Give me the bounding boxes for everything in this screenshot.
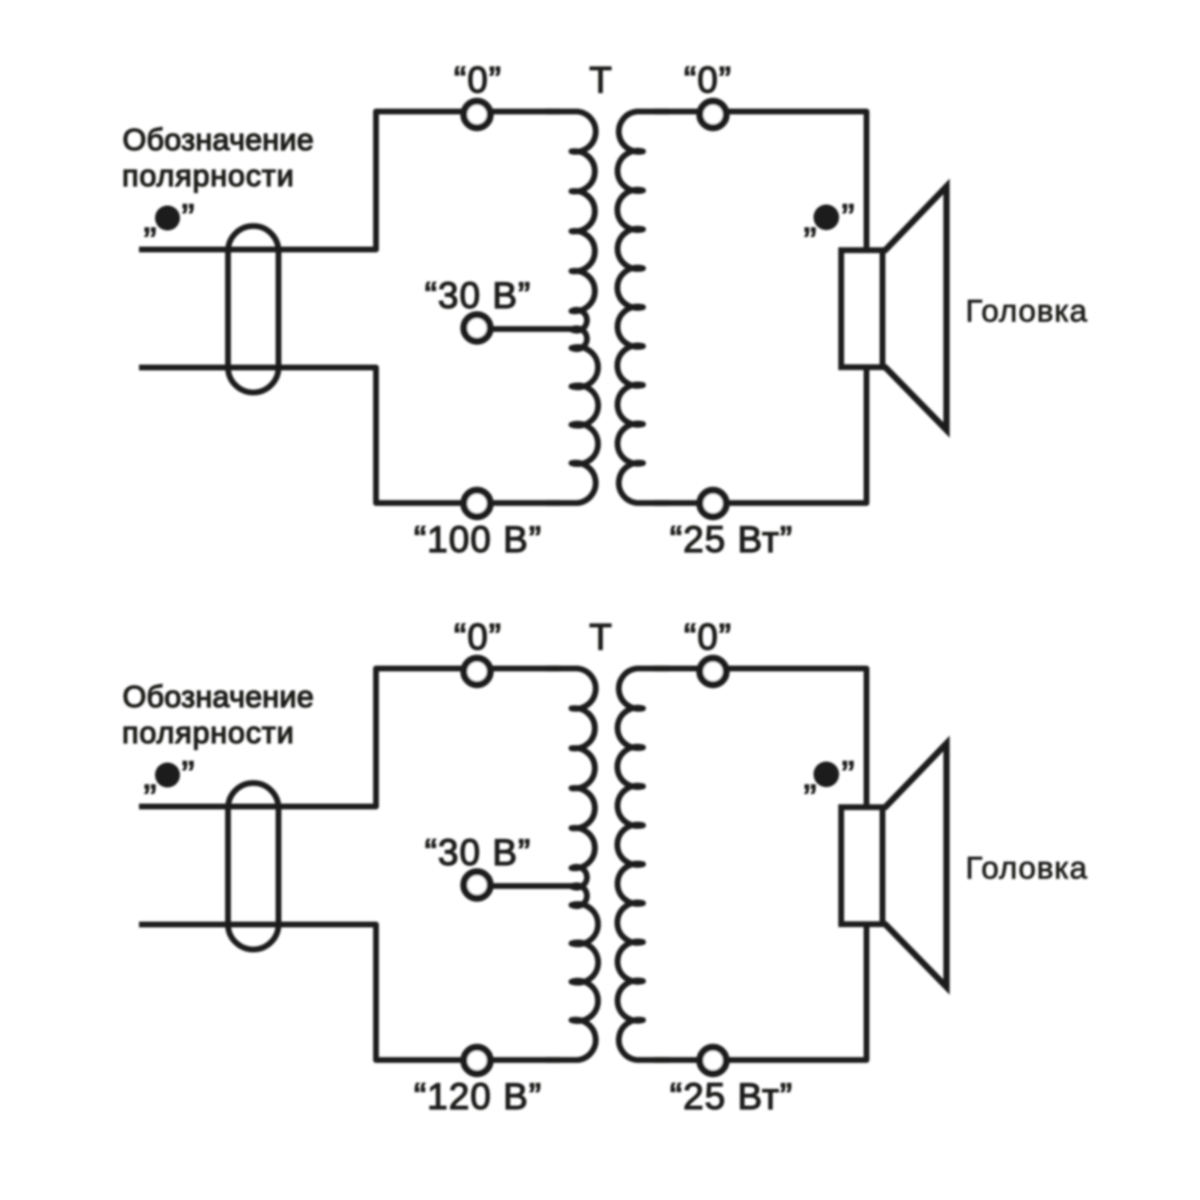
svg-text:“100 В”: “100 В”: [414, 519, 542, 560]
svg-text:“120 В”: “120 В”: [414, 1076, 542, 1117]
